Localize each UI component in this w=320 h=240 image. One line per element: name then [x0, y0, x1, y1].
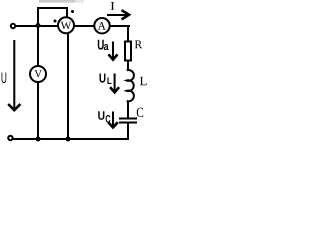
- label UL: [100, 73, 112, 84]
- junction node b: [36, 137, 41, 142]
- label I: [111, 2, 115, 10]
- junction node a: [36, 23, 41, 28]
- wire: top main: [15, 25, 130, 27]
- polarity dot (current coil): [54, 20, 57, 23]
- label C: [137, 108, 143, 117]
- wattmeter voltage-coil return wire: [67, 33, 69, 139]
- arrow UC: [108, 112, 118, 128]
- arrow Ua: [109, 42, 118, 60]
- terminal T2 (bottom input): [8, 136, 12, 140]
- arrow UL: [110, 74, 119, 93]
- label UC: [98, 111, 110, 122]
- wire: L to C: [127, 101, 129, 118]
- wattmeter voltage-coil wire (top loop): [38, 8, 67, 26]
- junction node c: [66, 137, 71, 142]
- ammeter A: [94, 18, 109, 33]
- wire: bottom main: [12, 138, 129, 140]
- label R: [135, 40, 143, 48]
- wire: right drop: [127, 25, 129, 41]
- voltmeter branch wire (lower): [37, 82, 39, 139]
- voltmeter V: [30, 66, 46, 82]
- resistor R: [125, 42, 131, 61]
- label L: [140, 77, 147, 85]
- capacitor C: [119, 119, 137, 123]
- wire: C to bottom: [127, 124, 129, 141]
- polarity dot (voltage coil): [71, 10, 74, 13]
- inductor L: [127, 70, 134, 101]
- label U: [2, 72, 7, 83]
- terminal T1 (top input): [11, 24, 15, 28]
- artifact strip: [39, 0, 84, 3]
- current arrow I: [107, 10, 129, 19]
- label Ua: [98, 40, 109, 50]
- wattmeter W: [58, 17, 74, 33]
- voltmeter branch wire (upper): [37, 26, 39, 66]
- voltage arrow U: [8, 40, 20, 110]
- wire: R to L: [127, 62, 129, 71]
